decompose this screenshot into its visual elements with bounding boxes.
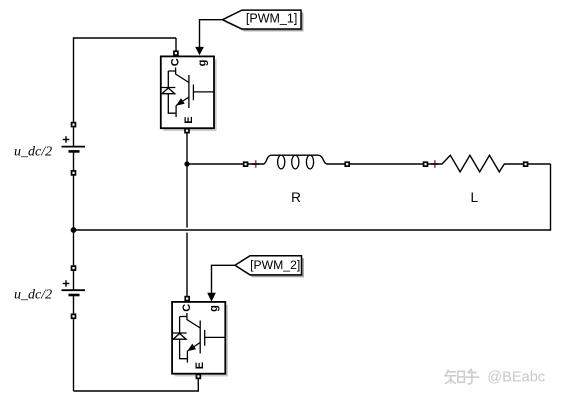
wire between R and L blocks bbox=[349, 163, 423, 165]
svg-text:u_dc/2: u_dc/2 bbox=[14, 144, 52, 159]
polarity mark + (R block) bbox=[252, 160, 260, 168]
port square B1 bottom bbox=[71, 170, 77, 176]
port square B1 top bbox=[71, 122, 77, 128]
port square R right bbox=[344, 161, 350, 167]
svg-text:@BEabc: @BEabc bbox=[487, 369, 545, 385]
port square U2 E bbox=[196, 374, 202, 380]
polarity mark + (L block) bbox=[431, 160, 439, 168]
IGBT U1 block bbox=[161, 56, 217, 131]
svg-text:g: g bbox=[208, 305, 220, 312]
inductor block R (coil icon) bbox=[243, 155, 349, 169]
port square U1 E bbox=[184, 128, 190, 134]
port square B2 top bbox=[71, 265, 77, 271]
DC source B1 u_dc/2 (top battery) bbox=[62, 136, 86, 151]
svg-text:E: E bbox=[183, 116, 195, 123]
watermark zhihu logo glyphs bbox=[444, 369, 479, 384]
svg-text:[PWM_2]: [PWM_2] bbox=[250, 258, 300, 272]
From tag [PWM_1] bbox=[223, 10, 304, 31]
svg-text:u_dc/2: u_dc/2 bbox=[14, 288, 52, 303]
wire U1 E to junction bbox=[186, 133, 188, 164]
wire right rail bbox=[550, 164, 552, 231]
junction on left rail (battery midpoint) bbox=[71, 227, 77, 233]
svg-text:R: R bbox=[291, 190, 301, 205]
port square U2 C bbox=[184, 296, 190, 302]
svg-text:E: E bbox=[194, 362, 206, 369]
port square U1 C bbox=[173, 50, 179, 56]
wire junction to R block bbox=[187, 163, 243, 165]
svg-text:C: C bbox=[181, 304, 193, 312]
wire bottom from E2 to left rail bbox=[74, 377, 200, 391]
wire junction down to U2 C (with hop gap at return wire) bbox=[186, 164, 188, 298]
DC source B2 u_dc/2 (bottom battery) bbox=[62, 280, 86, 295]
wire return bottom horizontal y=230 bbox=[74, 229, 551, 231]
port square R left bbox=[243, 161, 249, 167]
IGBT U2 block bbox=[172, 302, 228, 377]
svg-text:C: C bbox=[170, 58, 182, 66]
port square B2 bottom bbox=[71, 314, 77, 320]
From tag [PWM_2] bbox=[235, 256, 304, 278]
wire top horizontal from left rail to C1 bbox=[74, 38, 177, 51]
svg-text:g: g bbox=[197, 60, 209, 67]
port square L right bbox=[523, 161, 529, 167]
wire PWM_2 to U2 g with arrow bbox=[207, 265, 235, 301]
svg-text:L: L bbox=[471, 190, 479, 205]
svg-text:[PWM_1]: [PWM_1] bbox=[246, 12, 297, 26]
wire left rail lower segment bbox=[73, 295, 75, 391]
resistor block L (zigzag icon) bbox=[423, 155, 551, 172]
wire left rail middle segment bbox=[73, 151, 75, 290]
wire PWM_1 to U1 g with arrow bbox=[195, 20, 222, 56]
wire left rail upper segment bbox=[73, 37, 75, 146]
port square L left bbox=[423, 161, 429, 167]
junction node midpoint bbox=[184, 161, 189, 166]
